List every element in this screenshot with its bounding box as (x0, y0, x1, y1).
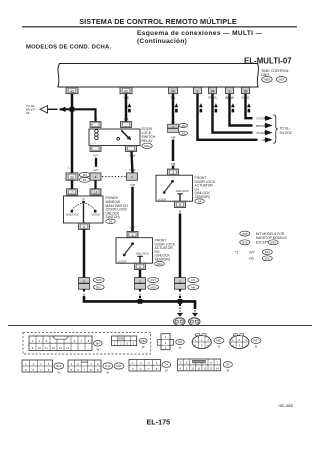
svg-text:Y/L: Y/L (171, 120, 176, 124)
svg-text:B: B (218, 345, 220, 349)
relay coil (95, 129, 99, 139)
to EL-MULTI-06 open arrow (40, 106, 48, 113)
brace for TO EL-S/LOCK (273, 115, 278, 143)
svg-text:G/Y: G/Y (93, 168, 98, 172)
direction arrow on Y/L wire (175, 103, 179, 112)
TCU pin 35 connector (242, 87, 250, 93)
front door lock actuator LH body (156, 175, 193, 201)
direction arrow on Y/B wire (128, 103, 132, 112)
svg-text:B: B (179, 309, 181, 313)
svg-text:BR/W: BR/W (256, 124, 264, 128)
relay label (142, 127, 156, 143)
svg-text:UNLOCK: UNLOCK (176, 189, 190, 193)
relay contact (117, 130, 131, 140)
inline connector: G/W column (127, 173, 138, 180)
svg-text:W: W (142, 345, 145, 349)
direction arrow on PU/G wire (214, 103, 218, 112)
RH actuator pin 3 connector (127, 232, 138, 238)
svg-text:UNLOCK: UNLOCK (66, 213, 80, 217)
svg-text:PU/G: PU/G (257, 131, 265, 135)
connector view id M4 oval (94, 341, 103, 352)
svg-text:B: B (179, 292, 181, 296)
svg-text:M8: M8 (191, 285, 195, 289)
connector view id M3 oval (176, 339, 185, 350)
connector view M22 (relay socket) (112, 336, 137, 346)
svg-text:D13: D13 (151, 278, 157, 282)
inline connector P1 (switch ground) (79, 278, 90, 290)
wire: G/W column continues down (131, 187, 134, 232)
power window main switch body (64, 196, 104, 223)
svg-text:SENSOR): SENSOR) (155, 258, 170, 262)
right arrow BR/W (265, 123, 273, 128)
front door lock actuator RH label (155, 239, 176, 262)
dashed grouping box (23, 333, 151, 355)
legend *1 wire colors (235, 250, 256, 254)
svg-text:3: 3 (132, 234, 134, 238)
wire: TCU pin 2 (G) staircase (198, 94, 267, 140)
switch pin 7 connector (67, 189, 78, 195)
header: section title (22, 17, 297, 27)
RH actuator id D14 (oval) (155, 261, 165, 266)
front door lock actuator RH body (116, 238, 153, 264)
svg-text:(Continuación): (Continuación) (137, 38, 187, 45)
legend note: M/T models oval (240, 231, 250, 236)
svg-text:M22: M22 (144, 144, 150, 148)
svg-text:4: 4 (131, 176, 133, 180)
svg-text:D4: D4 (165, 363, 169, 367)
svg-text:D6: D6 (109, 220, 113, 224)
TCU pin 43 connector (66, 87, 78, 93)
svg-text:36: 36 (171, 89, 175, 93)
svg-text:34: 34 (211, 89, 215, 93)
connector view M57 (round) (230, 334, 249, 349)
LH unlock contact bar (177, 193, 183, 195)
RH actuator common terminal (131, 242, 134, 245)
svg-text:B1: B1 (182, 132, 186, 136)
svg-text:06: 06 (26, 111, 30, 115)
svg-text:B: B (194, 309, 196, 313)
svg-text:4: 4 (95, 176, 97, 180)
svg-text:D4: D4 (198, 199, 202, 203)
svg-text:M4: M4 (83, 173, 87, 177)
wire: TCU pin 36 (Y/L) drop (172, 94, 175, 125)
switch throw left (dashed) (72, 203, 81, 210)
svg-text:B: B (179, 210, 181, 214)
junction node P2 (138, 299, 143, 304)
LH actuator throw (165, 182, 172, 191)
connector view D6 (14-cavity) (178, 359, 221, 371)
body ground G1 (174, 318, 185, 326)
wire stub into LH actuator pin (172, 166, 175, 170)
connector id B1 (oval) (179, 131, 188, 135)
time control unit bus bar (58, 64, 259, 88)
direction arrow on BR/W wire (231, 103, 235, 112)
wire: TCU pin 34 (PU/G) staircase (213, 94, 267, 133)
svg-text:SWITCH): SWITCH) (106, 215, 120, 219)
svg-text:7: 7 (71, 191, 73, 195)
svg-text:M3: M3 (178, 340, 182, 344)
svg-text:HARDTOP MODELS: HARDTOP MODELS (256, 236, 288, 240)
svg-text:M15: M15 (270, 241, 276, 245)
svg-text:M55: M55 (264, 78, 270, 82)
svg-text:B: B (139, 273, 141, 277)
svg-text:B: B (179, 346, 181, 350)
svg-text:3: 3 (172, 171, 174, 175)
wire: horizontal to EL-MULTI-06 (48, 108, 58, 110)
switch id D6 (oval) (106, 219, 116, 224)
svg-text:B15: B15 (242, 241, 247, 245)
ground bus wire (84, 297, 195, 310)
connector view M3 (cross shape) (157, 334, 173, 350)
svg-text:B: B (179, 273, 181, 277)
svg-text:6: 6 (179, 203, 181, 207)
svg-text:3: 3 (229, 89, 231, 93)
connector id B1 lower (oval) (79, 178, 90, 183)
ground eyelet arrow G2 (192, 313, 198, 317)
switch contact lock (94, 210, 97, 213)
svg-text:M15: M15 (242, 232, 248, 236)
connector id M8 (oval) (188, 285, 199, 290)
label PU/G at arrow (253, 130, 265, 135)
LH actuator pin 6 connector (175, 201, 186, 207)
switch N terminal (82, 197, 85, 203)
wire: P2 dashed to ground bus (139, 296, 141, 301)
wire: TCU pin 43 vertical drop (71, 94, 74, 173)
svg-text:LOCK: LOCK (92, 213, 101, 217)
svg-text:G/Y: G/Y (249, 250, 256, 254)
relay id M22 (oval) (142, 143, 152, 148)
wire: P1 dashed to ground bus (83, 296, 85, 299)
svg-text:*1 :: *1 : (235, 250, 240, 254)
right arrow G (265, 137, 273, 142)
LH wire to bottom pin (179, 194, 181, 201)
svg-text:N: N (82, 197, 84, 201)
connector view id M22 oval (139, 338, 147, 349)
svg-text:Y/B: Y/B (124, 117, 129, 121)
TCU pin 3 connector (226, 87, 234, 93)
svg-text:S/LOCK: S/LOCK (280, 131, 293, 135)
svg-text:W: W (226, 369, 229, 373)
switch pin 14 connector (90, 189, 101, 195)
RH actuator pin 6 connector (135, 263, 146, 269)
relay pin 3 connector (90, 146, 101, 152)
wire: branch down to relay pin 1 (95, 109, 96, 121)
connector id M55 (oval) (262, 77, 272, 83)
junction node P3 (178, 299, 183, 304)
TCU pin 34 connector (209, 87, 217, 93)
RH actuator throw (125, 245, 132, 254)
svg-text:14: 14 (94, 191, 98, 195)
svg-text:M16: M16 (150, 285, 156, 289)
connector view id M55 oval (214, 338, 224, 349)
connector view id D6 oval (223, 362, 232, 373)
connector view id D13 oval (103, 363, 113, 375)
inline connector P3 (LH ground) (175, 278, 186, 290)
svg-text:SENSOR): SENSOR) (195, 195, 210, 199)
label TO EL-S/LOCK (280, 127, 293, 135)
legend oval after EXCEPT (268, 240, 278, 245)
svg-text:43: 43 (70, 89, 74, 93)
svg-text:B: B (255, 345, 257, 349)
body ground G2 (189, 318, 200, 326)
inline connector P2 (RH ground) (135, 278, 146, 290)
svg-text:B: B (83, 292, 85, 296)
svg-text:G/Y: G/Y (93, 153, 98, 157)
svg-text:Y/B: Y/B (171, 162, 176, 166)
label G at arrow (258, 137, 265, 142)
relay pin 1 connector (90, 122, 101, 128)
connector view D4 (8-cavity) (129, 360, 161, 372)
svg-text:M55: M55 (216, 339, 222, 343)
svg-text:LOCK: LOCK (118, 259, 127, 263)
svg-text:EL-175: EL-175 (147, 418, 171, 427)
svg-text:HEL186D: HEL186D (279, 404, 294, 408)
wire: P3 dashed to ground bus (179, 296, 181, 301)
svg-text:D3: D3 (191, 278, 195, 282)
connector view D13 (10-cavity) (68, 360, 101, 372)
svg-text:B: B (83, 273, 85, 277)
RH actuator lock contact (123, 254, 126, 257)
svg-text:B10: B10 (56, 364, 61, 368)
connector id M16 (oval) (148, 285, 159, 290)
switch pin 8 connector (79, 223, 90, 229)
svg-text:2: 2 (197, 89, 199, 93)
connector id M57 (oval) (276, 77, 286, 83)
svg-text:B10: B10 (265, 250, 270, 254)
wire: G/Y inline to switch pin 14 (94, 180, 96, 189)
wire: TCU pin 42 drop to relay (125, 94, 128, 122)
RH wire to bottom pin (139, 256, 141, 263)
wire: TCU pin 3 (BR/W) staircase (230, 94, 267, 126)
svg-text:MODELOS DE COND. DCHA.: MODELOS DE COND. DCHA. (26, 44, 111, 50)
connector id M15 (oval) (93, 278, 104, 283)
relay pin 5 connector (126, 146, 137, 152)
junction node at pin-43 wire (70, 107, 75, 112)
svg-text:35: 35 (244, 89, 248, 93)
svg-text:42: 42 (124, 89, 128, 93)
svg-text:LOCK: LOCK (158, 198, 167, 202)
LH actuator id D4 (oval) (195, 199, 205, 204)
separator rule above connector views (8, 325, 312, 327)
time control unit label (261, 69, 289, 77)
switch common wire (83, 203, 85, 223)
connector view id B10 oval (54, 363, 64, 375)
svg-text:B1: B1 (83, 178, 87, 182)
wire: Y/B down to LH actuator (172, 140, 175, 161)
LH actuator common terminal (171, 180, 174, 183)
label G/YG at arrow (253, 116, 265, 121)
to EL-MULTI-06 label (26, 104, 36, 115)
connector view id D4 oval (162, 362, 171, 373)
svg-text:G/YG: G/YG (256, 117, 264, 121)
inline connector M3 (Y/L column) (168, 124, 179, 132)
relay pin 2 connector (121, 122, 132, 128)
svg-text:B10: B10 (96, 285, 101, 289)
header: subtitle (137, 30, 263, 45)
svg-text:RELAY: RELAY (142, 139, 154, 143)
inline connector: G/Y column (90, 173, 101, 180)
legend oval for G/Y (262, 250, 272, 255)
svg-text:D13: D13 (105, 364, 111, 368)
RH unlock contact bar (137, 255, 143, 257)
svg-text:G/W: G/W (130, 153, 136, 157)
svg-text:8: 8 (83, 225, 85, 229)
relay U1 body (89, 129, 140, 146)
LH actuator lock contact (163, 191, 166, 194)
direction arrow on G/YG wire (247, 103, 251, 112)
svg-text:Esquema de conexiones — MULTI: Esquema de conexiones — MULTI — (137, 30, 263, 37)
wire: relay pin 5 down (132, 152, 133, 174)
connector view B10 (8-cavity) (22, 360, 53, 372)
svg-text:M57: M57 (279, 78, 285, 82)
svg-text:W: W (106, 370, 109, 374)
inline connector row: pin 12 (col 72) (66, 173, 78, 180)
connector id B10 (oval) (93, 285, 104, 290)
wire: TCU pin 35 (G/YG) staircase (246, 94, 267, 119)
wire: RH actuator down (139, 270, 142, 278)
dotted link between connectors (102, 176, 126, 178)
svg-text:G/W: G/W (130, 168, 136, 172)
svg-text:M3: M3 (182, 124, 186, 128)
connector view id M57 oval (251, 338, 261, 349)
power window main switch label (106, 196, 129, 219)
legend oval for O/L (262, 256, 272, 261)
svg-text:Y/R: Y/R (130, 226, 136, 230)
svg-text:B: B (139, 292, 141, 296)
legend note: except oval (240, 240, 250, 245)
TCU pin 36 connector (169, 87, 178, 93)
TCU pin 42 connector (120, 87, 132, 93)
wire: LH actuator down (179, 214, 182, 278)
svg-text:W: W (165, 369, 168, 373)
svg-text:D6: D6 (226, 363, 230, 367)
svg-text:EXCEPT: EXCEPT (256, 241, 269, 245)
connector id D13 (oval) (148, 278, 159, 283)
svg-text:M15: M15 (96, 278, 102, 282)
svg-text:M16: M16 (116, 364, 122, 368)
wire: switch pin 8 down (83, 229, 86, 277)
svg-text:UNLOCK: UNLOCK (136, 251, 150, 255)
connector id M4 (oval) (79, 172, 90, 177)
wire: dashed drop to ground G1 (179, 304, 181, 309)
wire: relay pin 3 down (dashed) (95, 158, 97, 167)
svg-text:12: 12 (70, 176, 74, 180)
TCU pin 2 connector (194, 87, 202, 93)
svg-text:D10: D10 (265, 257, 271, 261)
direction arrow on G wire (199, 103, 203, 112)
connector id M3 (oval) (179, 123, 188, 127)
right arrow G/YG (265, 116, 273, 121)
svg-text:O/L: O/L (249, 257, 255, 261)
right arrow PU/G (265, 130, 273, 135)
arrowhead on wire (left) (60, 107, 66, 112)
connector view id M16 oval (114, 363, 124, 369)
svg-text:Y/R: Y/R (130, 183, 136, 187)
svg-text:SISTEMA DE CONTROL REMOTO MÚLT: SISTEMA DE CONTROL REMOTO MÚLTIPLE (79, 17, 237, 26)
connector view M4 (16-cavity) (29, 336, 92, 351)
label BR/W at arrow (253, 123, 265, 128)
svg-text:D14: D14 (157, 262, 163, 266)
legend note text line 1 (256, 232, 288, 240)
connector id D3 (oval) (188, 278, 199, 283)
svg-text:M57: M57 (253, 339, 259, 343)
front door lock actuator LH label (195, 176, 216, 199)
svg-text:W: W (96, 347, 99, 351)
connector view M55 (round) (192, 334, 211, 349)
switch throw right (dashed) (86, 203, 95, 210)
svg-text:M22: M22 (141, 339, 147, 343)
svg-text:M4: M4 (96, 342, 100, 346)
LH actuator pin 3 connector (168, 169, 179, 175)
ground eyelet arrow G1 (177, 313, 183, 317)
svg-text:Y/B: Y/B (171, 136, 176, 140)
wire: col72 inline to switch pin 7 (71, 180, 74, 189)
switch contact unlock (70, 210, 73, 213)
svg-text:6: 6 (139, 265, 141, 269)
svg-text:W: W (57, 370, 60, 374)
